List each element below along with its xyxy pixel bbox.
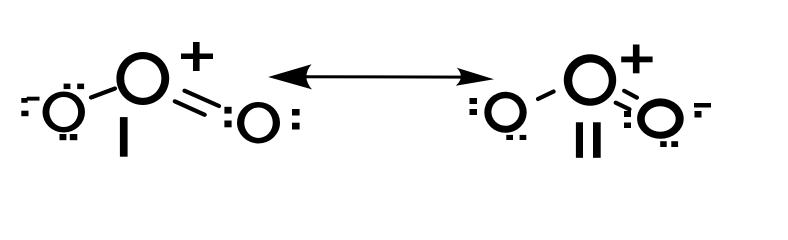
structure I : single bond O-O bbox=[91, 89, 115, 98]
structure I : left oxygen atom O bbox=[43, 92, 86, 133]
resonance arrow left head bbox=[268, 64, 312, 89]
structure II : double bond O=O upper line bbox=[624, 91, 637, 98]
structure II : right O right lone pair dot bbox=[695, 111, 702, 118]
structure II : left oxygen atom O bbox=[484, 92, 526, 133]
resonance arrow shaft bbox=[300, 75, 466, 78]
resonance arrow right head bbox=[456, 68, 494, 86]
structure I : left O top lone pair dots bbox=[64, 84, 85, 90]
structure I : double bond O=O lower line bbox=[175, 101, 205, 115]
structure II : minus charge on right O bbox=[694, 103, 711, 108]
label II bbox=[576, 122, 601, 158]
structure I : plus charge on central O bbox=[181, 42, 213, 71]
structure I : central oxygen atom O bbox=[116, 52, 169, 105]
structure II : single bond O-O bbox=[538, 92, 554, 100]
structure I : left O left lone pair dots bbox=[21, 98, 28, 116]
structure I : left O bottom lone pair dots bbox=[60, 134, 78, 140]
structure I : right O right lone pair dots bbox=[292, 109, 300, 130]
structure II : plus charge on central O bbox=[621, 45, 652, 74]
structure I : right O left lone pair dots bbox=[224, 107, 231, 128]
structure II : left O left lone pair dots bbox=[470, 98, 478, 115]
structure I : right oxygen atom O bbox=[237, 102, 280, 144]
structure II : right oxygen atom O bbox=[637, 98, 684, 138]
structure II : central oxygen atom O bbox=[564, 54, 616, 105]
label I bbox=[120, 117, 128, 157]
structure I : minus charge on left O bbox=[27, 97, 40, 101]
structure I : double bond O=O upper line bbox=[185, 91, 220, 106]
structure II : double bond O=O lower line bbox=[616, 103, 630, 110]
structure II : left O bottom lone pair dots bbox=[506, 135, 526, 140]
structure II : right O bottom lone pair dots bbox=[660, 141, 678, 147]
structure II : right O left lone pair dots bbox=[624, 111, 631, 128]
